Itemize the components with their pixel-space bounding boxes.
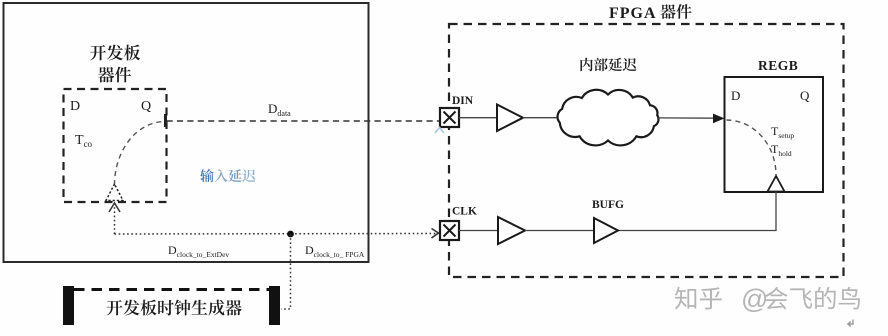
FF clock input triangle (dotted) [106,184,123,201]
clock generator left bar [63,286,74,325]
watermark 知乎 @会飞的鸟 [675,284,860,314]
REGB internal dashed arc D-to-clock [727,120,777,175]
wire DIN pad to input buffer [459,117,497,119]
label FPGA 器件 (FPGA device) [609,4,692,22]
label 开发板 器件 (dev board device) [90,45,140,83]
svg-text:Q: Q [141,99,151,114]
svg-text:@: @ [741,284,768,314]
svg-text:CLK: CLK [452,206,477,218]
svg-text:DIN: DIN [452,95,474,107]
svg-text:REGB: REGB [758,58,798,73]
register REGB box [725,77,824,192]
input buffer (data path) [497,105,523,132]
wire cloud to REGB D with arrow [657,117,717,119]
wire REGB clock drop [618,192,776,231]
wire CLK pad to clock buffer [459,230,498,232]
arrow into FF clock [109,203,120,212]
REGB clock input triangle [768,176,785,192]
svg-text:FPGA: FPGA [609,5,657,22]
arrow into CLK pad [432,229,439,239]
wire to BUFG [525,230,594,232]
wire clock dotted vertical to FF [114,204,116,234]
wire clock dotted to generator [281,234,291,309]
FF internal clock-to-Q dashed arc [115,122,166,186]
svg-text:D: D [70,99,80,114]
cloud (internal routing delay) [558,90,659,146]
pad CLK (IO pad with X) [440,221,459,240]
wire clock dotted horizontal (board clock net) [115,233,437,236]
svg-text:BUFG: BUFG [592,199,624,211]
svg-text:D: D [731,88,740,103]
label 开发板时钟生成器 (board clock generator) [107,300,242,316]
wire Ddata (dashed, FF Q to DIN pad) [167,120,441,122]
label 输入延迟 (input delay, blue) [200,169,255,182]
clock input buffer [498,217,525,244]
Q output tick [164,114,167,127]
flip-flop FF (dev board, dashed box) [64,89,167,202]
clock generator dashed top edge [74,288,269,291]
label 内部延迟 (internal delay) [580,58,636,72]
clock generator right bar [269,286,280,325]
dev-board outer box [4,3,369,262]
blue caret mark under DIN pad [435,128,444,134]
buffer BUFG [594,218,618,243]
watermark return-arrow mark [848,320,853,327]
FPGA device dashed box [449,24,844,277]
wire buffer to cloud [523,117,558,119]
pad DIN (IO pad with X) [440,108,459,127]
svg-text:Q: Q [800,88,810,103]
junction dot on clock net [287,231,294,238]
